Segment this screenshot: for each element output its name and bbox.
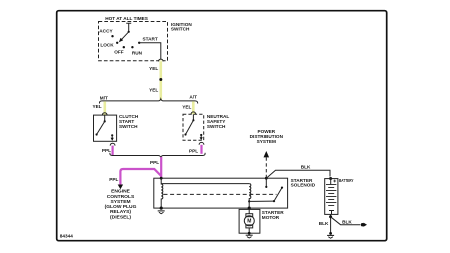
svg-text:PPL: PPL [150, 160, 159, 165]
svg-text:MOTOR: MOTOR [262, 215, 280, 220]
svg-text:OFF: OFF [114, 50, 124, 55]
svg-text:BLK: BLK [319, 221, 329, 226]
svg-text:(GLOW PLUG: (GLOW PLUG [105, 204, 137, 210]
svg-text:SWITCH: SWITCH [171, 27, 190, 32]
svg-text:BATTERY: BATTERY [339, 178, 354, 183]
svg-text:SYSTEM: SYSTEM [110, 199, 130, 205]
svg-text:SWITCH: SWITCH [207, 124, 226, 129]
svg-text:A/T: A/T [189, 95, 197, 100]
svg-text:ACCY: ACCY [99, 29, 113, 34]
svg-text:PPL: PPL [109, 177, 118, 182]
svg-text:84344: 84344 [60, 233, 73, 238]
svg-text:RUN: RUN [132, 51, 143, 56]
svg-text:PPL: PPL [102, 148, 111, 153]
svg-text:START: START [143, 37, 158, 42]
svg-text:PPL: PPL [189, 148, 198, 153]
svg-text:ENGINE: ENGINE [111, 189, 130, 195]
svg-text:YEL: YEL [182, 105, 191, 110]
svg-text:SWITCH: SWITCH [119, 124, 138, 129]
svg-text:YEL: YEL [93, 104, 102, 109]
svg-text:RELAYS): RELAYS) [110, 209, 131, 215]
svg-text:M: M [247, 219, 251, 225]
svg-text:HOT AT ALL TIMES: HOT AT ALL TIMES [105, 16, 148, 21]
svg-text:M/T: M/T [100, 96, 108, 101]
svg-text:CONTROLS: CONTROLS [107, 194, 135, 200]
svg-text:SOLENOID: SOLENOID [291, 183, 316, 188]
svg-text:SYSTEM: SYSTEM [257, 139, 276, 144]
svg-text:YEL: YEL [149, 66, 158, 71]
svg-text:BLK: BLK [301, 164, 311, 169]
svg-text:(DIESEL): (DIESEL) [110, 215, 131, 221]
svg-text:YEL: YEL [149, 87, 158, 92]
svg-text:BLK: BLK [342, 219, 352, 224]
svg-text:LOCK: LOCK [100, 43, 114, 48]
